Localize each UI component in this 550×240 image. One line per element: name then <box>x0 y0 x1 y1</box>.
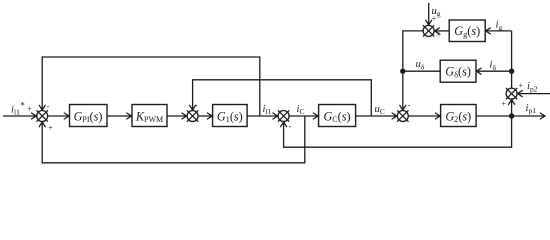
wire S5 output left then down into S4 <box>403 31 423 110</box>
arrowhead into S3 bottom <box>281 122 287 127</box>
summing junction S5 (u_g and Gg output) <box>423 25 434 36</box>
svg-text:+: + <box>519 81 524 90</box>
wire S2 to G1 block <box>198 115 211 117</box>
arrowhead into S1 bottom <box>39 122 45 127</box>
svg-text:GC(s): GC(s) <box>323 109 350 124</box>
arrowhead into S4 left <box>392 113 397 119</box>
wire u_g input from top into S5 <box>428 3 430 25</box>
wire S3 to GC block (node i_C) <box>289 115 316 117</box>
arrowhead into S3 left <box>273 113 278 119</box>
wire input i_l1* to summing junction S1 <box>3 115 36 117</box>
wire S1 to GPI block <box>48 115 69 117</box>
block GC(s) <box>319 105 356 127</box>
arrowhead into S4 top <box>400 105 406 110</box>
wire right vertical bus i_p1+i_p2 up through S6 to i_delta and i_g taps <box>511 31 513 116</box>
wire i_p1 feedback: down from output node, across, up into S3 <box>284 116 512 147</box>
svg-text:Gδ(s): Gδ(s) <box>445 65 471 80</box>
arrowhead into S6 bottom <box>509 100 515 105</box>
block Gg(s) <box>449 20 485 42</box>
arrowhead into KPWM <box>127 113 132 119</box>
arrowhead into Gg <box>486 28 491 34</box>
arrowhead into S1 top <box>39 105 45 110</box>
arrowhead into S2 top <box>190 105 196 110</box>
summing junction S1 (current reference) <box>37 111 48 122</box>
wire i_g: from right bus into Gg block <box>486 30 512 32</box>
block GPI(s) <box>70 105 108 127</box>
block Gdelta(s) <box>440 60 476 82</box>
arrowhead into S1 left <box>32 113 37 119</box>
wire Gg output into summing junction S5 <box>435 30 449 32</box>
arrowhead into G2 <box>435 113 440 119</box>
svg-text:G2(s): G2(s) <box>445 109 471 124</box>
block G1(s) <box>213 105 248 127</box>
svg-text:+: + <box>48 124 53 133</box>
svg-text:Gg(s): Gg(s) <box>454 24 480 39</box>
svg-text:G1(s): G1(s) <box>217 109 243 124</box>
arrowhead into Gd (i_delta) <box>476 68 481 74</box>
summing junction S6 (i_p1 plus i_p2) <box>506 88 517 99</box>
node dot i_delta tap on right bus <box>509 69 514 74</box>
summing junction S4 (u_C node with u_delta) <box>397 111 408 122</box>
wire S4 to G2 block <box>408 115 439 117</box>
arrowhead into GPI <box>64 113 69 119</box>
arrowhead into S5 top (u_g) <box>426 20 432 25</box>
wire GPI to KPWM block <box>107 115 131 117</box>
node dot u_delta junction <box>400 69 405 74</box>
wire output arrow i_p1 <box>512 115 544 117</box>
wire i_C feedback: tap down from node, across bottom, up into S1 <box>42 116 305 163</box>
wire GC to summing junction S4 (node u_C) <box>356 115 397 117</box>
svg-text:+: + <box>501 100 506 109</box>
wire i_delta: from right bus into Gd block <box>477 70 512 72</box>
wire u_C feedback: tap up from node, across, down into S2 <box>193 80 372 116</box>
wire G2 to output node i_p1 <box>476 115 512 117</box>
summing junction S3 (i_l1 minus i_p1) <box>278 111 289 122</box>
arrowhead into S2 left <box>182 113 187 119</box>
svg-text:-: - <box>195 101 198 110</box>
wire i_p2 input from right edge into S6 <box>518 93 550 95</box>
arrowhead into GC <box>313 113 318 119</box>
node dot i_p1 on main line <box>509 113 514 118</box>
arrowhead into S6 right (i_p2) <box>518 91 523 97</box>
svg-text:-: - <box>47 102 50 111</box>
svg-text:-: - <box>408 101 411 110</box>
arrowhead into G1 <box>207 113 212 119</box>
block G2(s) <box>441 105 477 127</box>
wire G1 to summing junction S3 (node i_l1) <box>247 115 277 117</box>
svg-text:+: + <box>437 30 442 39</box>
arrowhead output i_p1 <box>540 113 545 119</box>
arrowhead into S5 right <box>435 28 440 34</box>
wire u_delta: Gd output to vertical into S4 <box>403 70 440 72</box>
wire KPWM to summing junction S2 <box>167 115 186 117</box>
svg-text:-: - <box>289 122 292 131</box>
svg-text:+: + <box>27 104 32 113</box>
block KPWM <box>132 105 167 127</box>
wire i_l1 feedback: tap up from node, across top, down into S1 <box>42 57 260 116</box>
summing junction S2 (before G1) <box>187 111 198 122</box>
